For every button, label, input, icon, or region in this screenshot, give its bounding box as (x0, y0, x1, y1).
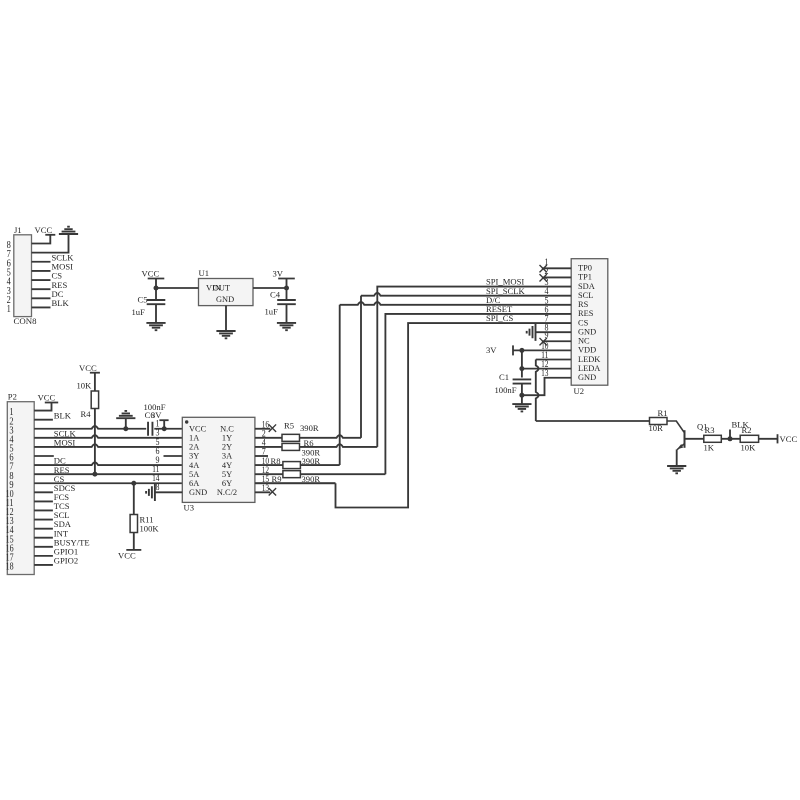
U2 pin names (578, 264, 600, 382)
svg-text:J1: J1 (14, 225, 22, 235)
U2 pin numbers 1-13 (541, 257, 549, 379)
svg-text:4Y: 4Y (222, 461, 232, 470)
svg-text:LEDK: LEDK (578, 355, 600, 364)
svg-text:R5: R5 (284, 421, 294, 431)
svg-text:18: 18 (6, 562, 14, 573)
wire SPI_MOSI net to U2 pin3 (377, 287, 571, 447)
wire P2 pin10 SDCS stub (34, 491, 53, 493)
power 3V at U1 output (273, 269, 295, 279)
svg-text:GND: GND (578, 327, 596, 336)
wire R8 to D/C riser (300, 464, 339, 466)
U3 left pin numbers (152, 419, 160, 494)
svg-text:6Y: 6Y (222, 479, 232, 488)
wire U2 pin12 LEDA to 3V node (522, 368, 571, 370)
wire P2 pin15 INT stub (34, 537, 53, 539)
wire U2 pin8 to ground (536, 331, 572, 333)
P2 pin numbers 1-18 (6, 407, 14, 572)
U2 pin2 stub no-connect (540, 274, 572, 281)
svg-text:2Y: 2Y (222, 443, 232, 452)
svg-text:LEDA: LEDA (578, 364, 600, 373)
U3 pin7 stub (255, 447, 268, 458)
wire RESET net to U2 pin6 (385, 314, 571, 474)
power VCC at P2 (38, 393, 59, 403)
node R4 junction (92, 472, 97, 477)
svg-text:N.C: N.C (220, 424, 234, 433)
svg-text:VCC: VCC (142, 269, 160, 279)
wire J1 pin7 to ground (32, 234, 69, 253)
svg-text:C5: C5 (138, 294, 148, 304)
svg-text:U1: U1 (199, 268, 210, 278)
svg-text:6A: 6A (189, 479, 199, 488)
node 3V junction (162, 426, 167, 431)
svg-text:5Y: 5Y (222, 470, 232, 479)
svg-text:MOSI: MOSI (54, 438, 76, 448)
wire U2 pin13 GND to ground node (522, 378, 571, 395)
wire P2 pin13 SCL stub (34, 519, 53, 521)
wire J1 pin3 RES (32, 288, 51, 290)
wire U1 OUT to 3V (253, 279, 287, 289)
wire Q1 base to R3 (685, 438, 704, 440)
ground below C5 (146, 323, 165, 330)
svg-text:GPIO2: GPIO2 (54, 556, 78, 566)
wire R1 to Q1 collector (667, 421, 684, 433)
wire P2 pin18 GPIO2 stub (34, 564, 53, 566)
wire R6 to SPI_MOSI riser (300, 444, 378, 447)
svg-text:TP1: TP1 (578, 273, 592, 282)
resistor R5 (255, 421, 319, 442)
svg-text:R3: R3 (705, 425, 715, 435)
power 3V at U3 VCC (151, 410, 169, 429)
svg-text:VDD: VDD (578, 346, 596, 355)
svg-text:1Y: 1Y (222, 434, 232, 443)
svg-text:3A: 3A (222, 452, 232, 461)
svg-text:C1: C1 (499, 372, 509, 382)
svg-text:BLK: BLK (52, 298, 70, 308)
svg-text:1uF: 1uF (132, 307, 146, 317)
power VCC at U1 input (142, 269, 165, 279)
svg-text:U3: U3 (184, 503, 195, 513)
wire J1 pin1 BLK (32, 306, 51, 308)
wire 3V to U2 pin10 VDD (513, 349, 571, 351)
svg-text:R8: R8 (271, 456, 281, 466)
svg-text:390R: 390R (302, 474, 321, 484)
svg-text:100nF: 100nF (495, 385, 517, 395)
ground above pin3 wire (116, 411, 135, 429)
capacitor C6 (144, 402, 166, 436)
wire J1 pin5 MOSI (32, 270, 51, 272)
wire U2 pin11 LEDK to R1 (536, 360, 650, 422)
svg-text:U2: U2 (574, 386, 585, 396)
wire P2 pin9 CS to U3 6A (34, 482, 182, 484)
svg-text:RES: RES (578, 309, 594, 318)
wire R9 to RESET riser (300, 473, 385, 475)
wire R5 to SPI_SCLK riser (300, 435, 362, 438)
svg-text:BLK: BLK (54, 410, 72, 420)
svg-text:RS: RS (578, 300, 589, 309)
ground at U2 pin8 (527, 323, 536, 340)
wire P2 pin12 TCS stub (34, 509, 53, 511)
resistor R8 (255, 456, 320, 469)
wire J1 pin8 to VCC (32, 235, 51, 244)
node BLK (728, 420, 750, 442)
resistor R6 (255, 438, 320, 458)
resistor R4 (77, 373, 99, 419)
wire P2 pin11 FCS stub (34, 500, 53, 502)
U3 pin15 wire labels (255, 474, 336, 485)
svg-text:VCC: VCC (38, 393, 56, 403)
svg-text:OUT: OUT (213, 284, 230, 293)
connector J1 body (14, 235, 32, 317)
power 3V at U2 VDD (486, 345, 513, 356)
wire P2 pin3 GND to C6 (34, 426, 146, 429)
wire P2 pin6 stub (34, 455, 54, 457)
U3 3Y stub (164, 455, 183, 457)
node LEDA junction (519, 366, 524, 371)
wire C6 to U3 VCC pin1 (154, 428, 182, 430)
wire SPI_SCLK net to U2 pin4 (361, 293, 571, 438)
svg-text:1K: 1K (704, 442, 715, 452)
U3 pin1 indicator dot (185, 420, 188, 423)
wire J1 pin4 CS (32, 279, 51, 281)
svg-text:10K: 10K (741, 442, 757, 452)
capacitor C1 (495, 350, 532, 404)
node VDD junction (519, 348, 524, 353)
U3 left pin names (189, 424, 207, 497)
svg-text:TP0: TP0 (578, 264, 592, 273)
node VIN junction (154, 286, 159, 291)
svg-text:R9: R9 (272, 474, 282, 484)
svg-text:390R: 390R (300, 423, 319, 433)
svg-text:2A: 2A (189, 443, 199, 452)
svg-text:GND: GND (216, 295, 234, 304)
svg-text:P2: P2 (8, 392, 17, 402)
ground below C4 (277, 323, 296, 330)
node R11 junction (131, 481, 136, 486)
svg-text:3V: 3V (486, 345, 497, 355)
power VCC above R4 (79, 363, 100, 373)
node C1 ground junction (519, 393, 524, 398)
U2 pin1 stub no-connect (540, 265, 572, 272)
wire P2 pin2 BLK stub (34, 419, 53, 421)
svg-text:R2: R2 (742, 425, 752, 435)
ground below U1 (216, 331, 235, 338)
ground at U3 GND (146, 484, 155, 501)
svg-text:10R: 10R (649, 423, 664, 433)
svg-text:NC: NC (578, 337, 590, 346)
svg-text:VCC: VCC (79, 363, 97, 373)
svg-text:1A: 1A (189, 434, 199, 443)
resistor R1 (649, 408, 668, 433)
wire P2 pin17 GPIO1 stub (34, 555, 53, 557)
wire SPI_CS net to U2 pin7 (255, 323, 571, 507)
wire U3 GND stub (155, 491, 182, 493)
wire J1 pin2 DC (32, 297, 51, 299)
U3 pin13 stub no-connect (255, 483, 276, 496)
J1 pin numbers 8-1 (7, 240, 11, 315)
capacitor C5 (132, 288, 166, 323)
svg-text:R1: R1 (658, 408, 668, 418)
power VCC right (778, 434, 798, 444)
wire P2 pin7 DC to U3 4A (34, 462, 182, 465)
svg-text:CS: CS (578, 318, 589, 327)
wire U1 GND to ground (225, 306, 227, 331)
svg-text:13: 13 (262, 483, 270, 494)
svg-text:SCL: SCL (578, 291, 593, 300)
wire P2 pin5 MOSI to U3 2A (34, 444, 182, 447)
wire VCC to U1 VIN (156, 279, 199, 289)
power VCC at J1 (35, 225, 56, 235)
power VCC below R11 (118, 550, 141, 560)
svg-text:VCC: VCC (118, 550, 136, 560)
svg-text:VCC: VCC (780, 434, 798, 444)
resistor R9 (255, 465, 301, 478)
ground below C1 (512, 404, 531, 411)
svg-text:SPI_CS: SPI_CS (486, 313, 513, 323)
capacitor C4 (265, 288, 296, 323)
svg-text:GND: GND (578, 373, 596, 382)
wire P2 pin8 RES to U3 5A (34, 473, 182, 475)
svg-text:GND: GND (189, 488, 207, 497)
transistor Q1 (677, 421, 707, 449)
resistor R11 (130, 483, 159, 533)
connector U2 body (571, 259, 608, 386)
wire J1 pin6 SCLK (32, 261, 51, 263)
wire P2 pin4 SCLK to U3 1A (34, 435, 182, 438)
svg-text:R4: R4 (81, 409, 92, 419)
ground below Q1 (667, 466, 686, 473)
U3 right pin names (217, 424, 237, 497)
wire P2 pin1 to VCC (34, 403, 51, 411)
svg-text:N.C/2: N.C/2 (217, 488, 237, 497)
wire D/C net to U2 pin5 (340, 302, 572, 465)
wire R2 to VCC (759, 438, 778, 440)
node OUT junction (284, 286, 289, 291)
U2 pin9 stub no-connect (540, 338, 572, 345)
svg-text:1uF: 1uF (265, 307, 279, 317)
ground at J1 pin7 (59, 227, 78, 234)
svg-text:10K: 10K (77, 381, 93, 391)
wire Q1 emitter to ground (676, 449, 678, 466)
regulator U1 body (199, 279, 254, 306)
U3 pin16 stub no-connect (255, 419, 276, 431)
wire R3 to BLK node (721, 438, 740, 440)
svg-text:SDA: SDA (578, 282, 595, 291)
wire P2 pin14 SDA stub (34, 528, 53, 530)
buffer U3 body (182, 417, 255, 502)
resistor R3 (704, 425, 722, 452)
wire P2 pin16 BUSY/TE stub (34, 546, 53, 548)
svg-text:5A: 5A (189, 470, 199, 479)
node ground junction (123, 426, 128, 431)
resistor R2 (740, 425, 758, 452)
svg-text:3V: 3V (273, 269, 284, 279)
wire R4 to RES line (94, 409, 96, 475)
svg-text:VCC: VCC (35, 225, 53, 235)
svg-text:4A: 4A (189, 461, 199, 470)
svg-text:3Y: 3Y (189, 452, 199, 461)
connector P2 body (7, 402, 34, 575)
svg-text:VCC: VCC (189, 424, 207, 433)
svg-text:C4: C4 (270, 290, 281, 300)
svg-text:CON8: CON8 (14, 316, 38, 326)
svg-text:1: 1 (7, 304, 11, 315)
wire R11 to VCC (133, 533, 135, 550)
svg-text:100K: 100K (140, 524, 160, 534)
